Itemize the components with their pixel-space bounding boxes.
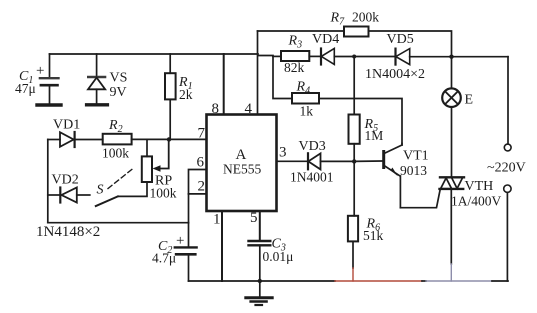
svg-text:VD1: VD1 <box>53 118 80 133</box>
svg-text:+: + <box>36 63 44 79</box>
ground <box>259 281 261 297</box>
wire R6 bottom lead <box>352 241 354 268</box>
svg-text:1N4004×2: 1N4004×2 <box>365 67 425 82</box>
svg-text:4: 4 <box>245 101 253 117</box>
svg-text:2: 2 <box>198 179 206 195</box>
wire top supply rail <box>50 53 259 55</box>
svg-text:VD2: VD2 <box>52 173 79 188</box>
wire pins2/6 down to C2 node <box>188 194 190 223</box>
svg-text:VTH: VTH <box>465 179 494 194</box>
svg-text:7: 7 <box>198 126 206 142</box>
svg-text:~220V: ~220V <box>487 161 526 176</box>
resistor R6 <box>348 216 358 242</box>
svg-text:82k: 82k <box>284 60 305 75</box>
terminal lower <box>504 185 511 192</box>
svg-text:1A/400V: 1A/400V <box>451 194 502 209</box>
wire pin8 lead <box>223 54 225 115</box>
wire emitter down <box>399 176 401 208</box>
wire RP top lead <box>146 139 148 156</box>
wire pin3 output <box>277 160 308 162</box>
capacitor C3 <box>249 240 271 242</box>
resistor R7 <box>344 27 369 37</box>
switch linkage dashed <box>108 169 133 189</box>
diode VD1 <box>48 139 60 141</box>
svg-text:VD4: VD4 <box>312 32 339 47</box>
diode VD4 <box>320 49 322 65</box>
wire R5 bottom to VD3 node <box>353 144 355 162</box>
svg-text:1N4148×2: 1N4148×2 <box>36 224 100 240</box>
svg-text:9013: 9013 <box>400 163 427 178</box>
svg-text:VT1: VT1 <box>403 149 429 164</box>
wire switch to RP bottom <box>118 182 147 196</box>
resistor R4 <box>292 93 319 104</box>
wire VD4 to VD5 <box>334 56 394 58</box>
resistor R3 <box>281 51 309 61</box>
wire left vertical VD1-VD2 <box>47 140 49 223</box>
svg-text:4.7μ: 4.7μ <box>152 251 176 266</box>
resistor R5 <box>349 115 360 144</box>
svg-text:6: 6 <box>197 155 205 171</box>
wire pin5 lead <box>259 211 261 241</box>
svg-text:NE555: NE555 <box>223 162 261 177</box>
capacitor C1 <box>49 54 51 77</box>
svg-text:1: 1 <box>213 212 221 228</box>
resistor R2 <box>103 134 132 145</box>
wire steering line to diodes <box>48 222 189 224</box>
lamp E <box>451 57 453 89</box>
svg-text:VS: VS <box>110 71 128 86</box>
wire VTH bottom lead <box>450 189 452 264</box>
svg-text:+: + <box>176 233 184 249</box>
wire R4 branch vertical <box>273 56 292 98</box>
wire VD5 to lamp node <box>410 56 508 58</box>
node lamp junction <box>449 55 453 59</box>
svg-text:9V: 9V <box>110 85 127 100</box>
svg-text:47μ: 47μ <box>15 81 36 96</box>
svg-text:3: 3 <box>279 145 287 161</box>
wire base lead <box>354 160 383 162</box>
svg-text:VD3: VD3 <box>299 139 326 154</box>
switch S blade <box>96 196 118 206</box>
wire R4 to collector <box>319 99 402 144</box>
diode VD2 <box>48 194 60 196</box>
wire right drop to terminal <box>507 57 509 144</box>
node R5 top junction <box>352 55 356 59</box>
wire pin4/R7 riser <box>257 31 259 115</box>
svg-text:51k: 51k <box>363 228 384 243</box>
capacitor C2 <box>188 223 190 247</box>
wire right bottom drop <box>506 193 508 282</box>
svg-text:8: 8 <box>212 101 220 117</box>
resistor R1 <box>169 54 171 73</box>
svg-text:100k: 100k <box>102 146 129 161</box>
node R1/R2/RP junction <box>167 137 171 141</box>
wire R5 top lead <box>353 57 355 115</box>
svg-text:0.01μ: 0.01μ <box>263 249 294 264</box>
diode VD3 <box>307 153 309 169</box>
wire R7 top branch right <box>369 31 452 57</box>
potentiometer RP <box>142 156 152 182</box>
svg-text:S: S <box>97 183 104 198</box>
wire R2 to pin7 <box>132 138 207 140</box>
zener diode VS <box>96 54 98 77</box>
svg-text:200k: 200k <box>352 10 379 25</box>
diode VD5 <box>394 49 396 65</box>
svg-text:1M: 1M <box>365 128 384 143</box>
RP wiper arrow <box>158 139 169 168</box>
IC U1 NE555 box <box>207 115 277 212</box>
transistor VT1 <box>382 152 385 168</box>
svg-text:2k: 2k <box>179 87 193 102</box>
wire R3 left <box>273 55 281 57</box>
wire node to R6 <box>353 161 355 215</box>
wire R7 top branch left <box>258 30 345 32</box>
wire gate lead <box>400 190 440 208</box>
node ground junction <box>258 279 262 283</box>
wire rail to R3/R4 node <box>258 55 273 58</box>
wire pin6 lead <box>189 170 207 194</box>
svg-text:1k: 1k <box>300 104 314 119</box>
svg-text:1N4001: 1N4001 <box>290 170 334 185</box>
wire R3 to VD4 <box>309 55 319 57</box>
terminal upper <box>504 144 511 151</box>
svg-text:E: E <box>465 93 474 108</box>
svg-text:VD5: VD5 <box>387 32 414 47</box>
node VD3/R5/base junction <box>352 159 356 163</box>
wire bottom rail <box>189 280 336 282</box>
svg-text:5: 5 <box>250 210 258 226</box>
wire pin1 lead <box>221 211 223 281</box>
wire pin2 lead <box>189 193 207 195</box>
triac VTH <box>440 176 464 178</box>
svg-text:100k: 100k <box>150 186 177 201</box>
